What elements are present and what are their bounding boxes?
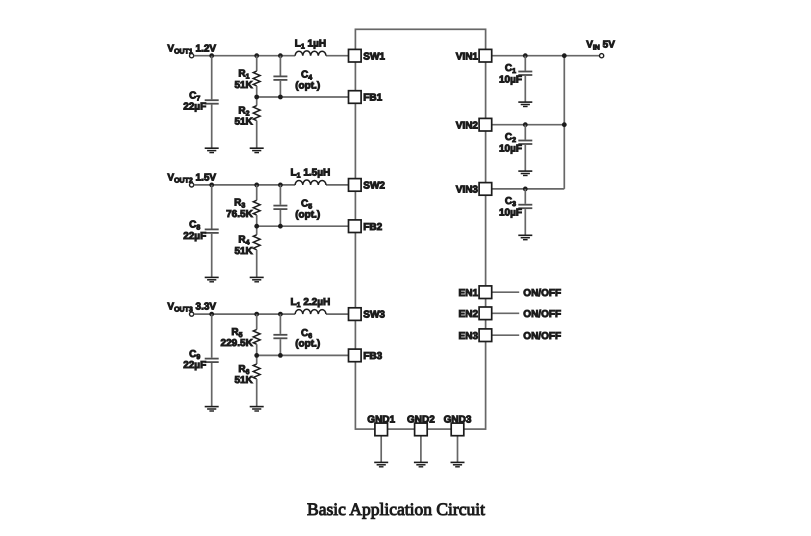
net label VOUT3 3.3V [167,302,216,314]
svg-text:51K: 51K [234,375,253,386]
svg-text:GND2: GND2 [407,414,435,425]
svg-text:(opt.): (opt.) [295,80,320,91]
ground symbol at C9 [205,407,219,411]
wire pin VIN1 to VIN terminal [492,55,600,57]
label C7 value 22µF [183,102,206,113]
svg-text:L1 1.5µH: L1 1.5µH [291,168,331,180]
junction C8 tap on VOUT2 net [209,183,214,188]
junction C5 tap on VOUT2 net [278,183,283,188]
svg-text:10µF: 10µF [499,144,522,155]
junction R1 tap on VOUT1 net [254,53,259,58]
capacitor C7 22µF output cap [205,56,219,148]
svg-text:GND3: GND3 [444,414,472,425]
wire feedback node to pin FB3 [257,354,349,356]
wire L1 to pin SW2 [326,184,349,186]
resistor R1 upper divider [253,56,260,97]
label C7 designator [189,90,200,102]
svg-text:SW1: SW1 [363,51,385,62]
wire L1 to pin SW3 [326,313,349,315]
junction C3 tap on VIN3 net [523,187,528,192]
label C2 designator [505,132,516,144]
svg-text:L1 2.2µH: L1 2.2µH [291,297,331,309]
junction C1 tap on VIN1 net [523,53,528,58]
junction R5 tap on VOUT3 net [254,312,259,317]
junction C5 bottom on feedback net [278,224,283,229]
pin GND1 [367,414,395,435]
pin SW1 [349,49,386,62]
ground symbol at R2 [250,148,264,152]
label R4 value 51K [234,246,253,257]
capacitor C2 10µF input cap [518,125,532,171]
label R5 designator [231,327,242,339]
label ON/OFF (EN1) [523,288,561,299]
svg-text:SW2: SW2 [363,181,385,192]
junction R5/R6 feedback node [254,353,259,358]
label C6 note (opt.) [295,339,320,350]
junction C6 tap on VOUT3 net [278,312,283,317]
label R4 designator [238,235,249,247]
wire pin VIN2 to bus [492,124,565,126]
node VOUT3 output terminal [190,312,194,316]
svg-text:ON/OFF: ON/OFF [523,331,561,342]
wire VOUT1 terminal to L1 (SW1 net) [194,55,295,57]
svg-text:L1 1µH: L1 1µH [295,38,326,50]
svg-text:SW3: SW3 [363,310,385,321]
svg-text:VIN 5V: VIN 5V [586,40,615,52]
label C4 note (opt.) [295,80,320,91]
wire pin GND1 to ground [380,436,382,463]
wire VOUT3 terminal to L1 (SW3 net) [194,313,295,315]
svg-text:10µF: 10µF [499,208,522,219]
junction R3/R4 feedback node [254,224,259,229]
wire feedback node to pin FB2 [257,225,349,227]
resistor R5 upper divider [253,314,260,355]
svg-text:22µF: 22µF [183,360,206,371]
label C5 note (opt.) [295,210,320,221]
label R6 designator [238,364,249,376]
pin FB2 [349,220,383,233]
net label VIN 5V [586,40,615,52]
label R1 value 51K [234,80,253,91]
resistor R3 upper divider [253,185,260,226]
svg-text:FB3: FB3 [363,351,382,362]
wire pin EN1 to ON/OFF [492,291,520,293]
ground symbol at C8 [205,277,219,281]
svg-text:76.5K: 76.5K [226,209,253,220]
ground symbol at R6 [250,407,264,411]
label R3 value 76.5K [226,209,253,220]
label C4 designator [301,70,312,82]
pin VIN2 [456,118,492,131]
wire pin VIN3 to bus [492,188,565,190]
svg-text:(opt.): (opt.) [295,339,320,350]
svg-text:GND1: GND1 [367,414,395,425]
capacitor C6 feed-forward (opt.) [273,314,287,355]
capacitor C3 10µF input cap [518,189,532,235]
net label VOUT2 1.5V [167,173,216,185]
net label VOUT1 1.2V [167,43,216,55]
label C9 value 22µF [183,360,206,371]
wire feedback node to pin FB1 [257,96,349,98]
label R2 value 51K [234,117,253,128]
wire L1 to pin SW1 [326,55,349,57]
label C5 designator [301,199,312,211]
label C6 designator [301,328,312,340]
svg-text:ON/OFF: ON/OFF [523,309,561,320]
pin EN1 [459,286,492,299]
junction C7 tap on VOUT1 net [209,53,214,58]
svg-text:VIN3: VIN3 [456,185,479,196]
junction C4 bottom on feedback net [278,95,283,100]
pin SW3 [349,308,386,321]
label R6 value 51K [234,375,253,386]
ground symbol at C1 [518,102,532,106]
junction C4 tap on VOUT1 net [278,53,283,58]
ground symbol at C7 [205,148,219,152]
svg-text:EN2: EN2 [459,309,479,320]
node VOUT2 output terminal [190,183,194,187]
inductor L1 2.2µH coil [295,309,326,314]
junction C9 tap on VOUT3 net [209,312,214,317]
junction C2 tap on VIN2 net [523,122,528,127]
label C2 value 10µF [499,144,522,155]
ground symbol at GND2 [414,462,428,466]
label R3 designator [234,198,245,210]
label C1 value 10µF [499,75,522,86]
ground symbol at C3 [518,235,532,239]
ground symbol at GND3 [451,462,465,466]
ground symbol at R4 [250,277,264,281]
node VOUT1 output terminal [190,54,194,58]
label R5 value 229.5K [221,338,254,349]
wire pin GND2 to ground [420,436,422,463]
pin FB3 [349,349,383,362]
label L1 1µH [295,38,326,50]
inductor L1 1.5µH coil [295,180,326,185]
wire pin EN3 to ON/OFF [492,334,520,336]
pin GND3 [444,414,472,435]
junction R1/R2 feedback node [254,95,259,100]
svg-text:EN1: EN1 [459,288,479,299]
pin EN2 [459,307,492,320]
wire pin EN2 to ON/OFF [492,312,520,314]
label C3 designator [505,196,516,208]
label ON/OFF (EN3) [523,331,561,342]
svg-text:(opt.): (opt.) [295,210,320,221]
capacitor C9 22µF output cap [205,314,219,406]
wire VOUT2 terminal to L1 (SW2 net) [194,184,295,186]
svg-text:FB2: FB2 [363,222,382,233]
resistor R4 lower divider [253,226,260,277]
pin GND2 [407,414,435,435]
caption Basic Application Circuit [307,499,485,519]
capacitor C1 10µF input cap [518,56,532,102]
svg-text:51K: 51K [234,246,253,257]
ground symbol at C2 [518,171,532,175]
ground symbol at GND1 [374,462,388,466]
label C8 designator [189,220,200,232]
node VIN input terminal [600,54,604,58]
junction VIN bus at VIN1 wire [562,53,567,58]
label R1 designator [238,68,249,80]
svg-text:VIN1: VIN1 [456,51,479,62]
capacitor C8 22µF output cap [205,185,219,277]
svg-text:ON/OFF: ON/OFF [523,288,561,299]
label R2 designator [238,105,249,117]
resistor R2 lower divider [253,97,260,148]
label C3 value 10µF [499,208,522,219]
op-amp/regulator IC body U1 [355,29,485,429]
svg-text:10µF: 10µF [499,75,522,86]
wire VIN bus vertical [563,56,565,189]
junction R3 tap on VOUT2 net [254,183,259,188]
label ON/OFF (EN2) [523,309,561,320]
wire pin GND3 to ground [457,436,459,463]
label L1 1.5µH [291,168,331,180]
junction VIN bus at VIN2 wire [562,122,567,127]
svg-text:51K: 51K [234,80,253,91]
resistor R6 lower divider [253,355,260,406]
svg-text:51K: 51K [234,117,253,128]
svg-text:229.5K: 229.5K [221,338,254,349]
label C9 designator [189,349,200,361]
capacitor C5 feed-forward (opt.) [273,185,287,226]
svg-text:22µF: 22µF [183,102,206,113]
label L1 2.2µH [291,297,331,309]
label C8 value 22µF [183,231,206,242]
svg-text:22µF: 22µF [183,231,206,242]
pin VIN1 [456,49,492,62]
pin EN3 [459,329,492,342]
pin SW2 [349,179,386,192]
svg-text:EN3: EN3 [459,331,479,342]
pin VIN3 [456,183,492,196]
capacitor C4 feed-forward (opt.) [273,56,287,97]
svg-text:Basic Application Circuit: Basic Application Circuit [307,499,485,519]
svg-text:FB1: FB1 [363,93,382,104]
inductor L1 1µH coil [295,51,326,56]
junction C6 bottom on feedback net [278,353,283,358]
pin FB1 [349,91,383,104]
svg-text:VIN2: VIN2 [456,120,479,131]
label C1 designator [505,63,516,75]
